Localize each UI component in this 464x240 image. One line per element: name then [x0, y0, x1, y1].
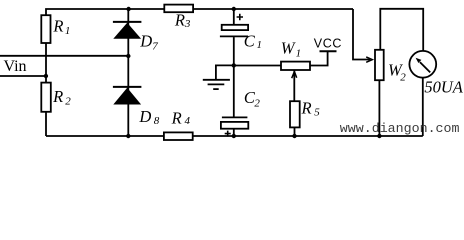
svg-text:Vin: Vin — [4, 58, 27, 75]
svg-text:5: 5 — [314, 106, 320, 118]
svg-text:R: R — [52, 87, 63, 106]
wire C1 bottom stub — [233, 37, 235, 65]
wire W1 left lead — [234, 65, 281, 67]
diode D7 — [113, 22, 158, 53]
node top rail / diode bus — [126, 7, 130, 11]
resistor R5 — [290, 98, 320, 127]
ground — [203, 80, 230, 89]
svg-text:D: D — [138, 107, 151, 126]
potentiometer W2 — [366, 50, 406, 84]
wire ground branch — [216, 65, 234, 79]
svg-text:3: 3 — [184, 18, 191, 30]
node junction dots — [44, 7, 382, 138]
capacitor C2 — [221, 88, 261, 136]
svg-text:R: R — [52, 17, 63, 36]
svg-text:R: R — [171, 108, 182, 127]
wire W1 right lead to VCC — [310, 51, 328, 65]
wire C2 bottom stub — [233, 129, 235, 136]
meter 50UA — [409, 51, 463, 96]
node Vin upper / diode midpoint — [126, 54, 130, 58]
capacitor C1 — [220, 14, 262, 51]
svg-text:1: 1 — [65, 25, 71, 37]
resistor R3 — [164, 5, 193, 30]
diode D8 — [113, 87, 160, 127]
wire W2 wiper feed — [353, 9, 370, 60]
node bottom rail / R5 — [292, 134, 296, 138]
node C1 / ground / W1 — [232, 63, 236, 67]
svg-text:1: 1 — [257, 39, 263, 51]
svg-text:1: 1 — [296, 48, 302, 60]
wire meter bottom stub — [422, 78, 424, 136]
svg-text:2: 2 — [65, 95, 71, 107]
node top rail / C1 — [232, 7, 236, 11]
wire R5 bottom stub — [294, 127, 296, 136]
svg-text:2: 2 — [254, 97, 260, 109]
wire C1 top stub — [233, 9, 235, 25]
svg-text:C: C — [244, 32, 256, 51]
wire W2 bottom stub — [378, 80, 380, 136]
wire bottom rail — [46, 135, 423, 137]
wire W1 wiper to R5 — [293, 70, 295, 101]
node bottom rail / W2 — [377, 134, 381, 138]
svg-text:4: 4 — [185, 115, 191, 127]
node bottom rail / diode bus — [126, 134, 130, 138]
wire Vin lower lead — [0, 75, 46, 77]
wire top rail — [46, 9, 353, 15]
svg-text:R: R — [301, 98, 312, 117]
svg-text:R: R — [174, 10, 185, 29]
svg-text:www.diangon.com: www.diangon.com — [340, 121, 460, 136]
svg-text:2: 2 — [400, 72, 406, 84]
resistor R2 — [41, 83, 71, 112]
wire W2 top to meter top — [380, 9, 423, 51]
svg-text:7: 7 — [152, 41, 158, 53]
wire R2 to bottom rail — [45, 112, 47, 136]
node Vin lower / R1-R2 — [44, 74, 48, 78]
resistor R1 — [41, 15, 70, 43]
node bottom rail / C2 — [232, 134, 236, 138]
wire diode bus — [127, 9, 129, 136]
wire R1-R2 link — [45, 43, 47, 83]
resistor R4 — [164, 108, 193, 140]
svg-text:D: D — [139, 32, 152, 51]
svg-text:W: W — [281, 38, 296, 57]
VCC terminal — [314, 36, 342, 51]
svg-text:VCC: VCC — [314, 36, 342, 50]
svg-text:50UA: 50UA — [424, 77, 463, 96]
wire Vin upper lead — [0, 55, 128, 57]
svg-text:8: 8 — [154, 115, 160, 127]
wire C1-C2 link — [233, 65, 235, 117]
potentiometer W1 — [281, 38, 310, 78]
